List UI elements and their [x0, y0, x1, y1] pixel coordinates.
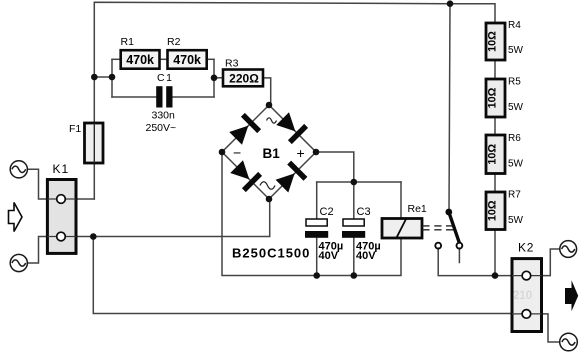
svg-text:K2: K2 [518, 241, 534, 255]
svg-text:C2: C2 [320, 206, 334, 218]
svg-text:40V: 40V [319, 250, 339, 262]
svg-text:R6: R6 [508, 133, 521, 144]
svg-text:C1: C1 [157, 72, 173, 84]
svg-text:B250C1500: B250C1500 [232, 245, 310, 260]
svg-text:R5: R5 [508, 77, 521, 88]
svg-text:5W: 5W [508, 102, 524, 113]
svg-text:R3: R3 [225, 58, 239, 70]
svg-text:10Ω: 10Ω [487, 31, 499, 52]
svg-text:10Ω: 10Ω [487, 200, 499, 221]
svg-text:−: − [233, 145, 241, 161]
svg-text:470k: 470k [126, 53, 154, 67]
svg-text:10Ω: 10Ω [487, 144, 499, 165]
svg-text:R7: R7 [508, 190, 521, 201]
svg-text:330n: 330n [152, 110, 176, 122]
svg-text:Re1: Re1 [408, 203, 427, 215]
svg-text:C3: C3 [357, 206, 371, 218]
svg-text:220Ω: 220Ω [229, 71, 259, 85]
svg-text:B1: B1 [263, 146, 281, 161]
svg-text:R1: R1 [121, 36, 135, 48]
svg-text:250V~: 250V~ [146, 122, 177, 134]
svg-text:K1: K1 [53, 162, 70, 176]
svg-text:5W: 5W [508, 45, 524, 56]
svg-text:+: + [297, 145, 305, 161]
svg-text:R2: R2 [167, 36, 181, 48]
svg-text:R4: R4 [508, 20, 521, 31]
svg-text:5W: 5W [508, 215, 524, 226]
svg-text:F1: F1 [69, 123, 81, 135]
svg-text:470k: 470k [173, 53, 201, 67]
svg-text:5W: 5W [508, 159, 524, 170]
svg-text:10Ω: 10Ω [487, 87, 499, 108]
svg-text:210: 210 [513, 290, 532, 302]
svg-text:40V: 40V [356, 250, 376, 262]
